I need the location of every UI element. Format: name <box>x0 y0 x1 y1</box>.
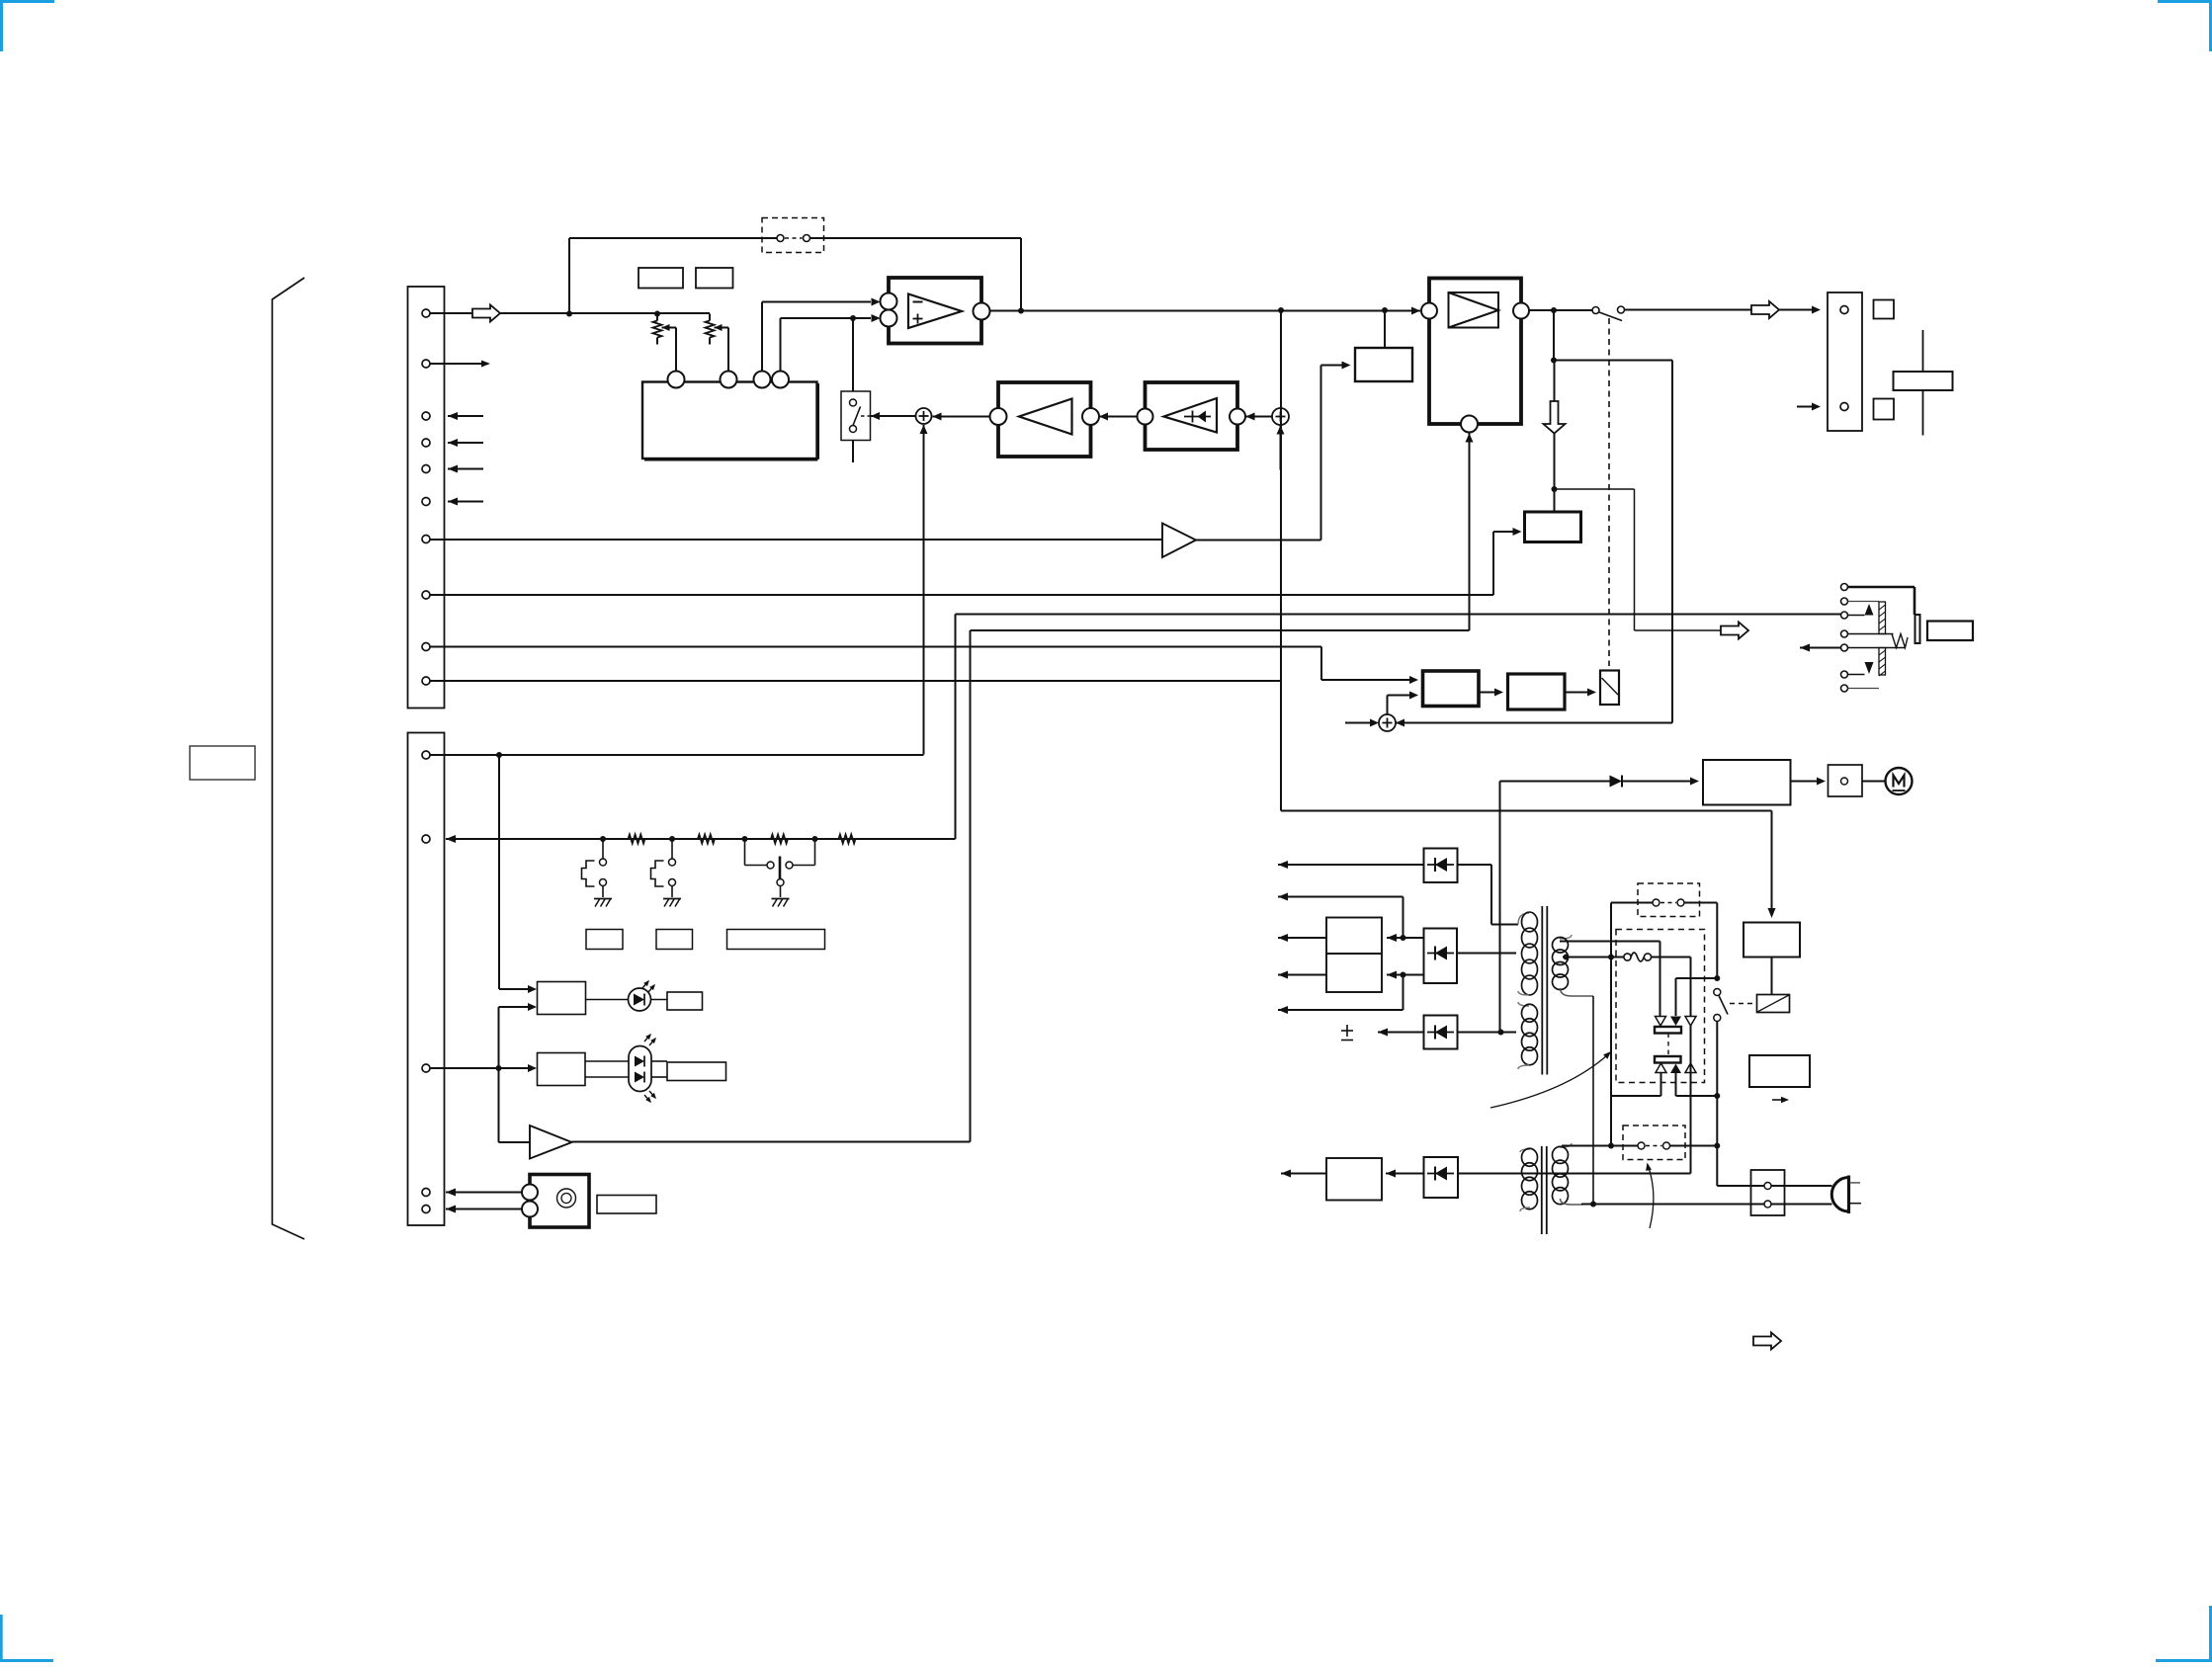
wire CN2 pin4 <box>446 1189 522 1197</box>
relay K1 coil <box>1600 671 1619 706</box>
node CN2 pin3 junction <box>496 1065 502 1071</box>
block L1 diode <box>1184 411 1211 423</box>
wire CN1 input arrow <box>448 498 483 506</box>
block arrow marker <box>1753 1333 1781 1350</box>
wire monitor to SUM2 riser <box>1396 361 1672 727</box>
connector CN5 <box>1829 765 1863 796</box>
mechanism pin <box>1841 644 1848 651</box>
small arrow marker <box>1772 1097 1789 1103</box>
hatched guide upper <box>1879 602 1886 634</box>
AC plug <box>1831 1176 1861 1214</box>
wire pin3 up-branch <box>499 1003 538 1068</box>
triac bar2 <box>1655 1056 1681 1063</box>
transformer T2 core <box>1542 1146 1547 1234</box>
node sw junction 2 <box>669 836 675 842</box>
diode box DB3 <box>1424 1157 1459 1198</box>
connector CN4 <box>1751 1170 1785 1215</box>
wire J2net down <box>1610 958 1612 1146</box>
relay RY box <box>1757 995 1790 1013</box>
block L1 amp triangle <box>1164 398 1218 433</box>
registration mark bottom-right <box>2156 1606 2212 1662</box>
transformer T2 primary <box>1520 1148 1538 1211</box>
node monitor junction <box>1551 358 1557 364</box>
wire CN2 pin1 run <box>430 754 924 756</box>
node DB4 junction <box>1498 1030 1504 1036</box>
head block box <box>530 1175 589 1228</box>
diode box DB1 <box>1424 849 1458 883</box>
connector CN1 pin 2 <box>422 360 430 368</box>
triac dashed link <box>1667 1034 1669 1057</box>
diode box DB2 <box>1424 929 1458 984</box>
wire CN2 pin1 to driver1 <box>499 755 537 993</box>
op-amp U1 triangle <box>908 294 962 329</box>
label box REC (empty) <box>638 268 683 289</box>
label box CN3-a (empty) <box>1874 300 1895 319</box>
slide switch SW3 <box>745 839 815 907</box>
timer box <box>1326 1158 1382 1201</box>
transformer T1 secondary <box>1553 935 1594 996</box>
node sw junction 4 <box>812 836 818 842</box>
block L1 pins <box>1138 409 1246 425</box>
transformer T1 primary lower <box>1518 1002 1538 1069</box>
wire IC1 pin4 to U1 non-inverting input <box>781 314 881 372</box>
label box (empty) <box>190 746 255 780</box>
jumper J2 pins <box>1653 899 1684 906</box>
tape up arrow <box>1848 604 1874 616</box>
IC1 top pin <box>772 372 789 388</box>
summing node SUM1 <box>916 408 932 424</box>
power amp PA box <box>1429 279 1521 425</box>
triac wire left <box>1611 1073 1661 1097</box>
wire T2 bottom run <box>1581 1204 1832 1206</box>
wire J3 to contact <box>1670 1145 1718 1147</box>
wire CN1 input arrow <box>448 412 483 420</box>
label box SW2 (empty) <box>656 930 693 950</box>
node sw junction 3 <box>742 836 748 842</box>
mechanism wire 2 <box>1848 601 1880 603</box>
wire A1 net to PA bottom <box>572 434 1474 1142</box>
switch S2 contacts <box>1592 306 1625 321</box>
connector CN1 pin 5 <box>422 465 430 473</box>
dashed control line S2 <box>1608 318 1610 666</box>
connector CN1 pin 4 <box>422 439 430 447</box>
wire to J2 <box>1611 903 1653 958</box>
block meter box <box>1355 348 1412 381</box>
wire DB2 input <box>1457 953 1516 955</box>
driver box D1 <box>538 982 586 1015</box>
label box SW3 (empty) <box>727 930 825 950</box>
triac verticals <box>1458 942 1691 1174</box>
amp A2 triangle <box>1162 524 1196 558</box>
wire L1 to L2 <box>1099 413 1138 421</box>
IC1 top pin <box>721 372 737 388</box>
mechanism wire 7 <box>1848 688 1880 690</box>
wire SUM2 out to BA <box>1388 692 1419 715</box>
power contact <box>1714 989 1728 1022</box>
wire T2 sec top <box>1562 1145 1638 1147</box>
wire stub into SUM3 bottom <box>1277 426 1285 470</box>
mechanism pin <box>1841 598 1848 605</box>
label box head (empty) <box>597 1196 656 1214</box>
mechanism lever wire <box>1800 644 1905 652</box>
mechanism head slab <box>1915 615 1920 643</box>
wire U1 output to PA input <box>990 307 1421 315</box>
triac bar1 <box>1655 1027 1681 1034</box>
node contact junction 2 <box>1714 1143 1720 1149</box>
wire regulator out 1 <box>1278 934 1326 942</box>
wire S1 to U1 input <box>852 318 854 391</box>
wire power block to relay RY <box>1771 958 1773 995</box>
wire main to power feed riser <box>1280 310 1282 811</box>
wire pin3 down-branch <box>499 1068 531 1142</box>
summing node SUM2 <box>1379 714 1396 731</box>
node main junction C <box>1018 308 1024 314</box>
wire feedback left riser <box>568 238 570 314</box>
connector CN3 pin1 <box>1840 306 1848 314</box>
connector CN2 pin <box>422 835 430 843</box>
wire CN4 pin1 to plug <box>1771 1185 1832 1187</box>
head symbol <box>557 1189 576 1208</box>
polarity mark <box>1341 1025 1353 1041</box>
wire DB1 output <box>1278 861 1424 869</box>
wire CN1 pin2 output <box>430 361 490 368</box>
resistor R2 <box>698 835 715 844</box>
mechanism pin <box>1841 584 1848 591</box>
mechanism pin <box>1841 630 1848 637</box>
block B2 box <box>1525 512 1581 542</box>
node fuse junction <box>1608 955 1614 960</box>
jumper J3 pins <box>1638 1142 1670 1149</box>
hollow down arrow <box>1544 361 1566 490</box>
wire timer out <box>1281 1170 1326 1178</box>
wire CN1 pin8 bus to B2 <box>430 528 1522 595</box>
node sw junction 1 <box>600 836 606 842</box>
driver box D2 <box>538 1053 586 1086</box>
wire CN1 input arrow <box>448 439 483 447</box>
registration mark top-right <box>2158 0 2212 51</box>
connector CN2 pin <box>422 1064 430 1072</box>
node PA out junction <box>1551 307 1557 313</box>
wire DB1 input <box>1458 865 1519 925</box>
switch S1 contacts <box>850 399 871 433</box>
wire CN1 pin1 to main node <box>430 305 710 322</box>
connector CN2 pin <box>422 751 430 759</box>
pot RV2 <box>706 314 729 372</box>
dashed link RY to contact <box>1730 1003 1756 1005</box>
mechanism wire 4 <box>1848 633 1894 635</box>
node B+ junction <box>1552 486 1558 492</box>
label box LED2 (empty) <box>667 1062 726 1081</box>
block BA box <box>1423 671 1480 707</box>
switch S1 body <box>841 391 871 441</box>
transformer T1 primary upper <box>1518 912 1538 995</box>
rectifier out 1 <box>1387 934 1424 942</box>
wire into CN3 pin2 <box>1797 403 1821 411</box>
wire S2 to CN3 pin1 <box>1625 301 1822 318</box>
wire gate branch <box>1676 978 1718 1016</box>
connector CN1 pin 7 <box>422 536 430 543</box>
wire contact down <box>1716 1022 1718 1187</box>
fuse F1 <box>1624 953 1652 961</box>
label box CN3-b (empty) <box>1874 399 1895 420</box>
leader arc 2 <box>1646 1163 1654 1229</box>
IC1 top pin <box>754 372 771 388</box>
wire CN2 pin5 <box>446 1206 522 1213</box>
triac row1 <box>1656 1017 1697 1027</box>
block L2 amp triangle <box>1019 399 1072 435</box>
wire motor box to CN5 <box>1791 778 1827 786</box>
triac wire mid <box>1676 1073 1718 1096</box>
block L2 box <box>998 382 1091 457</box>
connector CN1 pin 3 <box>422 412 430 420</box>
wire CN1 pin7 bus to A2 <box>430 539 1162 541</box>
wire into B2 riser <box>1554 489 1556 512</box>
wire CN1 input arrow <box>448 465 483 473</box>
power block box <box>1744 923 1800 958</box>
node main junction E <box>1382 307 1388 313</box>
pot RV1 <box>653 314 677 372</box>
node main-in junction A <box>566 311 572 317</box>
motor drive box <box>1703 760 1791 805</box>
block L1 box <box>1146 382 1238 450</box>
jumper J1 pins <box>777 235 810 242</box>
wire power feed run <box>1281 811 1776 919</box>
rectifier out 2 <box>1387 971 1424 979</box>
motor M1 <box>1886 768 1913 794</box>
connector CN2 <box>408 733 445 1226</box>
push switch SW2 <box>651 839 682 907</box>
wire DB4 input <box>1458 1032 1517 1034</box>
connector CN2 pin <box>422 1189 430 1197</box>
wire D5 to motor box <box>1622 778 1699 786</box>
node main junction D <box>1278 307 1284 313</box>
connector CN1 pin 10 <box>422 677 430 685</box>
wire sum1 to S1 <box>871 412 916 420</box>
diode D5 <box>1610 776 1623 788</box>
wire power to motor diode <box>1500 781 1610 783</box>
wire fuse to triac riser <box>1652 958 1691 1017</box>
wire motor feed riser <box>1499 782 1501 1033</box>
wire rect down-branch <box>1278 975 1404 1015</box>
wire to meter box riser <box>1384 310 1386 348</box>
wire sec tap to fuse <box>1563 957 1624 959</box>
push switch SW1 <box>582 839 613 907</box>
wire IC1 pin3 to U1 inverting input <box>762 298 881 372</box>
node CN2 pin1 junction <box>496 752 502 758</box>
wire regulator out 2 <box>1278 971 1326 979</box>
wire rect up-branch <box>1278 893 1404 939</box>
wire BA to BB <box>1479 689 1503 697</box>
resistor R1 <box>629 835 645 844</box>
wire S1 lower stub <box>852 441 854 463</box>
node main-in junction B <box>654 311 660 317</box>
wire T1 sec bottom riser <box>1592 996 1594 1205</box>
wire CN2 pin1 to SUM1 <box>920 425 928 755</box>
leader arc 1 <box>1490 1051 1611 1108</box>
wire DB3 output <box>1386 1170 1424 1178</box>
wire stub into SUM2 left <box>1345 719 1379 727</box>
resistor R4 <box>839 835 856 844</box>
regulator box <box>1326 918 1382 993</box>
LED LED2 (dual) <box>585 1034 667 1103</box>
connector CN1 pin 8 <box>422 591 430 599</box>
registration mark bottom-left <box>0 1615 53 1662</box>
label box SW1 (empty) <box>586 930 623 950</box>
node contact junction 1 <box>1714 1093 1720 1099</box>
resistor R3 <box>771 835 788 844</box>
hatched guide lower <box>1879 648 1886 677</box>
op-amp U1 box <box>889 278 981 344</box>
wire PA out <box>1529 309 1592 311</box>
node U1 plus-input junction <box>850 315 856 321</box>
wire CN5 to motor <box>1862 781 1886 783</box>
spring symbol <box>1892 634 1908 648</box>
block L2 pins <box>990 408 1100 425</box>
transformer T2 secondary <box>1553 1143 1583 1205</box>
wire DB4 output <box>1378 1029 1424 1037</box>
connector CN1 <box>408 287 445 708</box>
registration mark top-left <box>0 0 54 51</box>
node jumper3 junction <box>1608 1143 1614 1149</box>
label box LED1 (empty) <box>667 992 703 1010</box>
node T1 sec tap <box>1564 955 1570 960</box>
connector CN2 pin <box>422 1206 430 1213</box>
wire T1 sec top <box>1560 941 1660 943</box>
power amp PA pins <box>1421 303 1529 433</box>
connector CN1 pin 9 <box>422 643 430 651</box>
mechanism frame wire <box>1848 587 1915 615</box>
head block pins <box>522 1185 538 1217</box>
jumper J2 (dashed box) <box>1638 883 1700 917</box>
connector CN1 pin 1 <box>422 309 430 317</box>
node gate junction <box>1714 975 1720 981</box>
LED LED1 <box>586 980 668 1011</box>
connector CN3 pin2 <box>1840 403 1848 411</box>
mechanism pin <box>1841 685 1848 692</box>
wire amp A2 out to meter box <box>1196 362 1351 541</box>
summing node SUM3 <box>1272 408 1289 425</box>
op-amp U1 pins <box>881 293 990 327</box>
label box RY (empty) <box>1749 1055 1810 1087</box>
wire SUM3 to L1 <box>1246 413 1273 421</box>
record head bar <box>1894 330 1953 436</box>
label box PB (empty) <box>696 268 733 289</box>
wire into SUM1 right <box>933 413 991 421</box>
triac dashed box <box>1616 930 1705 1083</box>
wire B+ branch <box>1555 489 1722 630</box>
amp A1 triangle <box>530 1125 572 1159</box>
triac row2 <box>1656 1063 1696 1073</box>
board bracket <box>272 278 304 1239</box>
node rect junction 1 <box>1401 935 1406 941</box>
wire J2 to contact riser <box>1685 903 1718 979</box>
mechanism pin <box>1841 612 1848 619</box>
jumper J3 (dashed box) <box>1623 1125 1685 1160</box>
connector CN4 pins <box>1764 1183 1771 1209</box>
jumper J1 (dashed box) <box>762 218 824 253</box>
label box mech (empty) <box>1927 622 1973 641</box>
wire BB to relay K1 <box>1565 689 1596 697</box>
node rect junction 2 <box>1401 972 1406 978</box>
power amp PA symbol <box>1449 292 1499 328</box>
IC1 top pin <box>668 372 685 388</box>
connector CN1 pin 6 <box>422 498 430 506</box>
mechanism wire 6 <box>1848 674 1865 676</box>
tape down arrow <box>1865 662 1874 674</box>
wire CN1 pin9 bus to BA <box>430 647 1418 685</box>
connector CN3 <box>1828 292 1862 431</box>
wire monitor tap riser <box>1553 310 1555 361</box>
wire contact to CN4 pin1 <box>1717 1185 1763 1187</box>
IC1 box <box>642 382 817 459</box>
diode box DB4 <box>1424 1016 1458 1049</box>
wire CN2 pin3 run <box>430 1064 537 1072</box>
wire CN1 pin10 bus <box>430 680 1281 682</box>
block BB box <box>1508 674 1566 709</box>
transformer T1 core <box>1542 906 1547 1075</box>
wire CN2 pin2 bus to mechanism <box>446 615 1841 844</box>
mechanism pin <box>1841 671 1848 678</box>
block arrow to mechanism <box>1721 623 1748 639</box>
wire feedback top run <box>569 238 1021 311</box>
node T2 bottom junction <box>1590 1202 1596 1208</box>
